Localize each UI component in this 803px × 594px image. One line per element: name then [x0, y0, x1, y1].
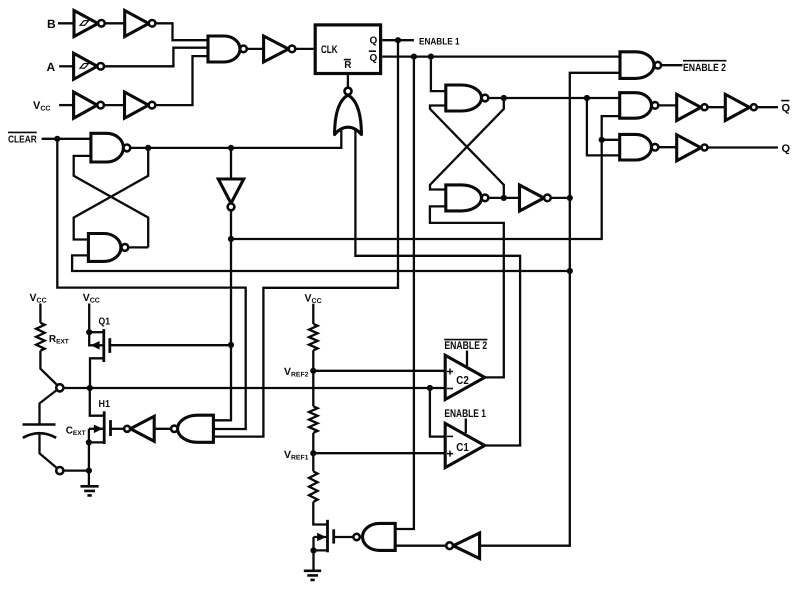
wire left latch NAND2 feedback input run from buffer-out net	[72, 255, 570, 271]
overline for Q-bar pin	[369, 50, 376, 52]
buffer U19 Q-bar first	[677, 94, 701, 120]
bubble U1 output	[98, 20, 105, 27]
resistor RB divider middle	[309, 406, 318, 433]
svg-text:CLK: CLK	[321, 44, 338, 56]
transistor Q1 body arrow head	[91, 341, 100, 350]
wire H1 inverter input from H1-gate NAND output bubble	[154, 428, 171, 430]
transistor M3 gate bar	[332, 529, 335, 543]
comparator C1	[445, 423, 485, 467]
bubble U21 output	[702, 145, 708, 151]
wire Q-bar branch to right latch NAND input	[431, 57, 446, 92]
resistor RA divider top	[309, 324, 318, 350]
wire Vref2 node down to divider resistor RB	[312, 371, 314, 407]
wire Vref1 node down to divider resistor RC	[312, 453, 314, 471]
minus sign C1	[447, 435, 453, 437]
svg-text:H1: H1	[99, 399, 111, 410]
buffer U15 after right latch	[520, 185, 544, 211]
wire Cext terminal to H1 source column	[63, 469, 89, 471]
wire input B to Schmitt inverter	[58, 22, 74, 24]
plus sign C2	[447, 369, 453, 375]
wire Vcc2 to Q1 source	[88, 304, 90, 333]
svg-text:ENABLE 2: ENABLE 2	[444, 340, 487, 352]
wire B buffer output to AND gate input 1	[155, 23, 208, 40]
resistor RC divider bottom	[309, 471, 318, 501]
node latch3 output junction	[501, 95, 507, 101]
node buffer tap junction	[228, 145, 234, 151]
node Vcc2 Q1 source junction	[86, 329, 92, 335]
wire left latch NAND1 output to NOR gate input 1	[130, 131, 341, 148]
inverter U25 bottom pointing left	[453, 533, 480, 559]
wire H1 gate lead to inverter output bubble	[111, 428, 125, 430]
wire M3 source to ground stem	[312, 550, 314, 569]
bubble U22 output	[171, 426, 177, 432]
bubble U23 output	[124, 426, 130, 432]
inverter U23 pointing left to H1 gate	[130, 416, 154, 441]
wire CLEAR input to latch	[42, 138, 91, 140]
bubble U18 output	[652, 144, 659, 151]
terminal Rext/Cext pin	[56, 384, 63, 391]
node timing rail C2 branch junction	[427, 385, 433, 391]
svg-text:Q: Q	[782, 102, 791, 114]
node inverted-clear and riser junction	[228, 236, 234, 242]
node Cext ground junction	[86, 468, 92, 474]
capacitor Cext curved plate	[23, 433, 56, 438]
svg-text:R: R	[344, 60, 352, 71]
wire input Vcc to buffer 1	[59, 104, 74, 106]
transistor M3 body lead	[314, 537, 328, 550]
buffer U4 on input Vcc	[74, 92, 98, 118]
bubble U13 output	[482, 95, 489, 102]
wire inverting buffer output down to H1-gate NAND input 1	[213, 210, 231, 420]
node Vref2	[310, 368, 316, 374]
bubble U25 output	[446, 542, 453, 549]
wire Vcc3 to divider resistor RA	[312, 304, 314, 324]
node latch4 output junction	[501, 195, 507, 201]
NAND gate U11 left latch bottom	[88, 234, 121, 262]
tick from ENABLE 1 label to C1	[465, 419, 467, 434]
transistor H1 gate bar	[109, 420, 112, 436]
bubble U17 output	[652, 102, 659, 109]
wire AND gate output to clock buffer	[247, 48, 264, 50]
bubble U16 output	[655, 62, 662, 69]
bubble U2 output	[149, 20, 156, 27]
wire Q output of flip-flop to ENABLE 1 node	[382, 39, 414, 41]
inverter U1 Schmitt on input B	[74, 11, 98, 37]
overline for R-bar pin	[344, 59, 351, 61]
bubble U19 output	[702, 104, 708, 110]
wire RA to Vref2 node	[312, 350, 314, 371]
bubble U4 output	[97, 102, 104, 109]
wire Q-bar NAND output to buffer 1	[658, 104, 676, 106]
wire R-bar pin stem to NOR bubble	[347, 75, 349, 88]
buffer U7 clock buffer	[264, 36, 289, 62]
wire Q-bar output of flip-flop to ENABLE2 NAND input 1	[382, 55, 620, 57]
node H1 source junction	[86, 439, 92, 445]
transistor M3 body arrow head	[317, 533, 326, 542]
node Q-bar drop junction 1	[411, 54, 417, 60]
inverter U3 Schmitt on input A	[74, 53, 98, 79]
wire H1 source down to ground junction	[88, 442, 90, 486]
wire ENABLE2 NAND output	[661, 64, 682, 66]
transistor Q1 body lead with arrow	[89, 332, 104, 345]
wire inverting buffer input from latch output	[230, 148, 232, 179]
svg-text:C1: C1	[456, 442, 469, 454]
node Vref1	[310, 450, 316, 456]
wire Rext to Rext/Cext terminal	[40, 351, 57, 385]
wire inverted-clear net run to Q/Q-bar output NAND inputs riser	[231, 116, 620, 239]
overline for ENABLE 2 above C2	[444, 339, 487, 341]
node buffer output junction	[567, 195, 573, 201]
wire right latch cross-coupling from NAND3 output to NAND4 input	[430, 98, 504, 190]
node timing rail left junction	[87, 385, 93, 391]
NAND gate U16 ENABLE2 output gate	[620, 52, 654, 79]
AND gate U24 M3 gate driver pointing left	[363, 523, 396, 550]
overline for CLEAR	[8, 131, 37, 133]
transistor H1 channel	[103, 411, 106, 444]
NAND gate U14 right latch bottom	[446, 185, 482, 211]
wire right latch cross-coupling from NAND4 output to NAND3 input	[430, 106, 504, 198]
buffer U5 on input Vcc	[125, 92, 149, 118]
NAND gate U10 left latch top	[91, 133, 124, 162]
transistor Q1 source lead	[89, 331, 104, 333]
svg-text:Q: Q	[370, 53, 378, 64]
svg-text:ENABLE 1: ENABLE 1	[419, 37, 460, 48]
NAND gate U13 right latch top	[446, 85, 482, 111]
transistor Q1 gate bar	[108, 338, 111, 353]
wire Q-bar buffer2 output to Q-bar terminal	[757, 106, 778, 108]
inverting buffer U12 pointing down	[218, 179, 243, 203]
wire left latch NAND2 output to cross riser	[128, 246, 148, 248]
wire Vcc1 to Rext	[39, 304, 41, 323]
wire clock buffer output to CLK pin of flip-flop	[295, 48, 313, 50]
bubble U24 output	[353, 534, 359, 540]
bubble U6 output	[240, 46, 247, 53]
node Q-bar-NAND input branch junction	[584, 95, 590, 101]
wire C1 output to NOR gate input 2	[355, 130, 520, 446]
wire timing rail branch down to C1 minus input	[430, 388, 445, 437]
flip-flop U8 box	[315, 25, 380, 74]
ground symbol G2 under M3	[304, 571, 321, 580]
wire right latch NAND3 output long run to Q-bar NAND input 1	[488, 97, 619, 99]
wire left latch cross-coupling from NAND2 output to NAND1 input	[74, 156, 149, 248]
wire M3 gate lead from bottom AND gate output bubble	[334, 536, 353, 538]
AND gate U6 3-input clock gate	[208, 36, 240, 62]
buffer U21 Q output	[677, 135, 701, 161]
node M3 source junction	[310, 547, 316, 553]
bubble U10 output	[124, 145, 131, 152]
wire Q1 drain down to timing rail	[90, 358, 104, 388]
transistor M3 channel	[326, 520, 329, 553]
hysteresis symbol in U1	[80, 21, 89, 26]
minus sign C2	[447, 388, 453, 390]
tick from ENABLE 2 label to C2	[466, 351, 468, 367]
node Q-bar drop junction 2	[428, 54, 434, 60]
ground symbol G1 under Cext/H1	[81, 486, 99, 495]
overline for Q-bar output	[781, 100, 789, 102]
bubble U7 output	[289, 46, 296, 53]
bubble U14 output	[482, 195, 489, 202]
svg-text:Q: Q	[782, 143, 791, 155]
node ENABLE 1 junction	[395, 37, 401, 43]
comparator C2	[445, 355, 485, 399]
svg-text:C2: C2	[456, 375, 469, 387]
wire Vref1 node to C1 plus input	[313, 452, 445, 454]
node feedback return junction	[567, 268, 573, 274]
wire latch buffer output net: up to ENABLE2 NAND input 2 and down to bottom inverter	[480, 73, 620, 546]
svg-text:Q: Q	[370, 36, 378, 47]
transistor H1 body lead	[89, 429, 104, 443]
wire Q net vertical drop to horizontal run toward H1-gate NAND	[213, 40, 398, 436]
wire A Schmitt output to AND gate input 2	[104, 48, 208, 67]
svg-text:B: B	[47, 17, 56, 31]
wire Q1 gate lead to inverted-clear net	[110, 344, 231, 346]
resistor Rext	[36, 323, 45, 351]
wire Vref2 node to C2 plus input	[313, 370, 445, 372]
wire CLEAR net drop and run to H1-gate NAND input 2	[57, 139, 245, 429]
hysteresis symbol in U3	[80, 64, 89, 69]
wire riser branch to Q output NAND input 1	[602, 139, 620, 141]
terminal Cext pin	[56, 467, 63, 474]
wire terminal to Cext top plate	[40, 390, 58, 425]
capacitor Cext top plate	[23, 423, 56, 426]
wire left latch cross-coupling from NAND1 output to NAND2 input	[74, 148, 149, 240]
svg-text:ENABLE 2: ENABLE 2	[683, 62, 726, 74]
wire H1 drain from timing rail	[90, 388, 104, 416]
wire Cext bottom plate to Cext terminal	[40, 434, 58, 469]
svg-text:CLEAR: CLEAR	[8, 134, 37, 145]
bubble U12 output	[228, 204, 235, 211]
bubble U3 output	[97, 63, 104, 70]
overline for ENABLE 2 output	[683, 60, 727, 62]
bubble U5 output	[149, 102, 156, 109]
NAND gate U17 Q-bar output gate	[620, 93, 652, 119]
wire right latch NAND4 output to buffer	[488, 197, 519, 199]
wire Q NAND output to buffer	[658, 146, 676, 148]
node Q-NAND input branch junction	[599, 137, 605, 143]
wire B Schmitt output to buffer	[105, 22, 125, 24]
wire bottom inverter output to bottom AND gate input 2	[395, 545, 446, 547]
wire input A to Schmitt inverter	[59, 65, 74, 67]
wire RB to Vref1 node	[312, 433, 314, 453]
wire C2 output up to right latch NAND4 input 2	[430, 206, 504, 377]
NAND gate U22 H1 gate driver pointing left	[178, 415, 214, 442]
wire Q buffer output to Q terminal	[708, 146, 778, 148]
wire Vcc buffer1 output to buffer2	[104, 104, 125, 106]
bubble U20 output	[751, 104, 757, 110]
NAND gate U18 Q output gate	[620, 134, 652, 160]
node Q1 gate junction	[228, 342, 234, 348]
wire branch from Q-bar-NAND input line down to Q NAND input 2	[587, 98, 620, 155]
wire Q-bar buffer1 to buffer2	[708, 106, 725, 108]
wire Vcc buffer2 output to AND gate input 3	[155, 56, 208, 105]
transistor Q1 channel	[102, 329, 105, 362]
svg-text:A: A	[47, 60, 56, 74]
node latch1 output junction	[145, 145, 151, 151]
NOR gate U9 reset gate pointing up	[335, 95, 362, 135]
svg-text:Q1: Q1	[99, 316, 111, 327]
bubble U11 output	[122, 244, 129, 251]
wire Rext/Cext terminal to timing rail junction	[63, 387, 445, 389]
wire Q-bar net drop to bottom AND gate input	[395, 57, 414, 529]
wire RC to M3 drain	[313, 502, 327, 525]
bubble U9 output on R-bar	[345, 88, 352, 95]
buffer U2 on input B	[125, 11, 149, 37]
buffer U20 Q-bar second	[725, 94, 749, 120]
svg-text:ENABLE 1: ENABLE 1	[444, 408, 486, 420]
bubble U15 output	[544, 195, 551, 202]
transistor H1 body arrow head	[94, 425, 103, 434]
node CLEAR junction	[54, 136, 60, 142]
plus sign C1	[447, 451, 453, 457]
